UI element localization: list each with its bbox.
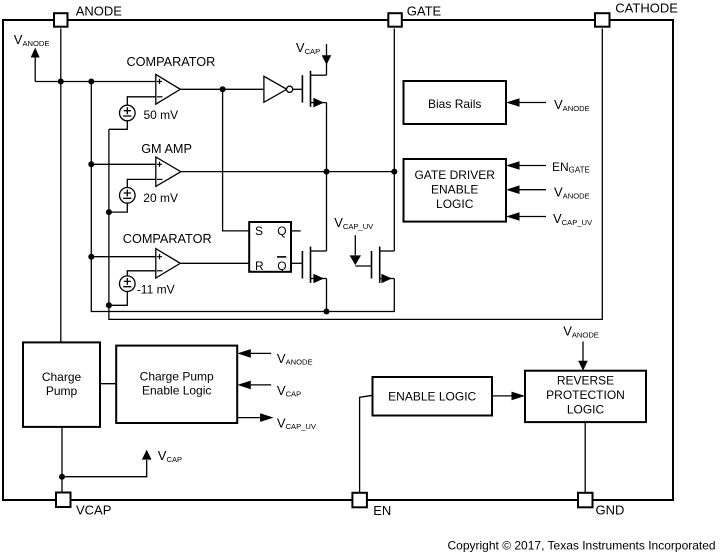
- svg-text:COMPARATOR: COMPARATOR: [127, 55, 216, 69]
- svg-text:PROTECTION: PROTECTION: [546, 388, 625, 402]
- svg-text:R: R: [255, 259, 264, 273]
- svg-text:VCAP: VCAP: [76, 503, 111, 518]
- svg-text:Pump: Pump: [46, 384, 78, 398]
- svg-text:COMPARATOR: COMPARATOR: [123, 232, 212, 246]
- svg-text:Q: Q: [277, 259, 286, 273]
- svg-text:Bias Rails: Bias Rails: [428, 97, 481, 111]
- svg-text:Charge: Charge: [42, 370, 82, 384]
- svg-text:GM AMP: GM AMP: [141, 142, 192, 156]
- svg-text:CATHODE: CATHODE: [615, 0, 678, 15]
- svg-text:Charge Pump: Charge Pump: [140, 370, 214, 384]
- svg-text:50 mV: 50 mV: [144, 108, 179, 122]
- svg-text:ENABLE: ENABLE: [431, 183, 478, 197]
- svg-text:Copyright © 2017, Texas Instru: Copyright © 2017, Texas Instruments Inco…: [448, 539, 716, 553]
- svg-text:Q: Q: [277, 224, 286, 238]
- svg-text:LOGIC: LOGIC: [436, 197, 474, 211]
- svg-text:EN: EN: [373, 503, 391, 518]
- svg-text:Enable Logic: Enable Logic: [142, 383, 211, 397]
- svg-text:LOGIC: LOGIC: [567, 403, 605, 417]
- svg-text:S: S: [255, 224, 263, 238]
- svg-text:-11 mV: -11 mV: [137, 282, 175, 296]
- svg-text:20 mV: 20 mV: [143, 191, 178, 205]
- svg-text:ANODE: ANODE: [76, 3, 123, 18]
- svg-text:GND: GND: [596, 503, 625, 518]
- svg-text:ENABLE LOGIC: ENABLE LOGIC: [388, 389, 476, 403]
- svg-text:GATE DRIVER: GATE DRIVER: [414, 168, 495, 182]
- svg-text:REVERSE: REVERSE: [557, 374, 614, 388]
- svg-text:GATE: GATE: [407, 3, 442, 18]
